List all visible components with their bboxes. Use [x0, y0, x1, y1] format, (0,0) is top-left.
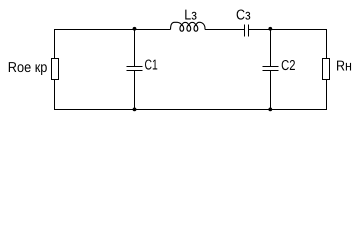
svg-text:Cз: Cз [236, 7, 251, 23]
wire left vertical lower [54, 80, 56, 111]
wire C2 branch lower [270, 71, 272, 111]
inductor loop 3 [194, 25, 198, 31]
junction node C1 top [133, 27, 137, 31]
wire C1 branch lower [134, 71, 136, 111]
svg-text:C2: C2 [281, 58, 295, 74]
resistor Roe kr body [52, 59, 59, 80]
wire right vertical lower [326, 80, 328, 111]
svg-text:Rн: Rн [336, 58, 352, 74]
wire top-left horizontal [54, 29, 171, 31]
wire C1 branch upper [134, 30, 136, 67]
wire right vertical upper [326, 30, 328, 59]
wire top middle (inductor to C3) [205, 29, 244, 31]
svg-text:Lз: Lз [184, 8, 197, 24]
junction node C2 bottom [268, 108, 272, 112]
capacitor C2 plates [263, 66, 279, 68]
svg-text:Roe кр: Roe кр [8, 60, 48, 76]
junction node C1 bottom [133, 108, 137, 112]
inductor loop 2 [187, 25, 191, 31]
resistor Rn body [323, 59, 330, 80]
capacitor C3 plates [244, 25, 246, 37]
wire bottom horizontal [54, 109, 327, 111]
svg-text:C1: C1 [145, 58, 158, 74]
wire left vertical upper [54, 30, 56, 59]
inductor loop 1 [180, 25, 184, 31]
junction node C2 top [268, 27, 272, 31]
capacitor C1 plates [127, 66, 143, 68]
wire top right (C3 to top-right corner) [249, 29, 327, 31]
inductor L3 coil [171, 22, 206, 31]
wire C2 branch upper [270, 30, 272, 67]
